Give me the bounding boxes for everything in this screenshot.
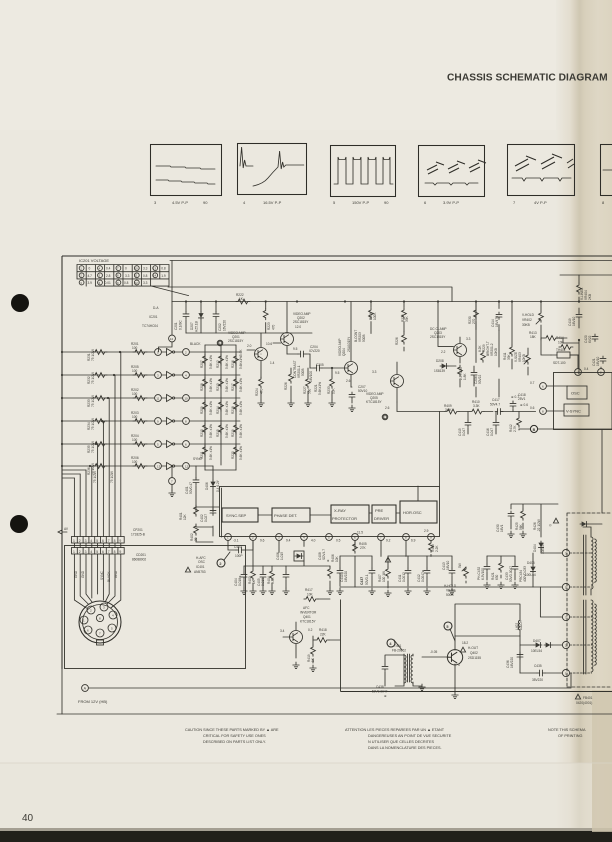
svg-text:86088002: 86088002 [132, 558, 146, 562]
wire AV arrow [58, 527, 69, 534]
resistor R228b [395, 331, 406, 351]
svg-text:10K: 10K [332, 387, 336, 394]
svg-text:FB401: FB401 [583, 696, 593, 700]
svg-text:0.027: 0.027 [204, 514, 208, 522]
svg-text:4.0: 4.0 [311, 539, 316, 543]
svg-text:27K: 27K [360, 546, 367, 550]
svg-text:VR401: VR401 [446, 589, 456, 593]
inverter U201C row [61, 388, 240, 407]
capacitor C411 [398, 556, 411, 595]
svg-text:6V22: 6V22 [588, 335, 592, 343]
svg-text:OSC: OSC [198, 560, 206, 564]
svg-text:3.3: 3.3 [466, 337, 471, 341]
resistor R406 [327, 554, 339, 594]
pin 5 of T402 [562, 583, 591, 590]
resistor R225 [401, 302, 409, 332]
svg-text:-0.05: -0.05 [430, 650, 437, 654]
transistor Q401 AFC invertor [280, 606, 317, 669]
caution text block [185, 728, 279, 744]
resistor R230 [468, 302, 478, 330]
svg-text:R227: R227 [303, 386, 307, 394]
svg-text:5: 5 [446, 625, 448, 629]
wire vhold top link [560, 274, 612, 276]
svg-text:GND: GND [74, 570, 78, 578]
svg-text:3.3: 3.3 [143, 281, 148, 285]
svg-text:5: 5 [96, 550, 98, 554]
resistor ladder R212-R215 column [216, 345, 229, 465]
svg-text:4V P-P: 4V P-P [534, 200, 547, 205]
svg-text:KTC1815Y: KTC1815Y [366, 400, 382, 404]
svg-text:5W: 5W [458, 563, 462, 568]
pin 1 of IC401 [225, 534, 239, 543]
svg-text:⊕: ⊕ [326, 559, 330, 562]
wire hout collector [455, 635, 520, 637]
svg-text:2: 2 [79, 550, 81, 554]
svg-text:R414: R414 [556, 336, 564, 340]
box OSC [567, 386, 587, 399]
resistor R402 [190, 524, 213, 542]
svg-text:2.6: 2.6 [346, 379, 351, 383]
svg-text:DESCRIBED ON PARTS LIST ONLY.: DESCRIBED ON PARTS LIST ONLY. [203, 740, 266, 744]
svg-text:1.8K: 1.8K [463, 373, 467, 380]
svg-text:5.6K ±1%: 5.6K ±1% [209, 355, 213, 369]
wire right column risers [476, 302, 499, 398]
svg-text:2.9: 2.9 [424, 529, 429, 533]
waveform box 6 [419, 146, 487, 206]
svg-text:11.5: 11.5 [357, 531, 363, 535]
svg-text:75 1/2W: 75 1/2W [93, 471, 97, 483]
svg-text:CHASSIS SCHEMATIC DIAGRAM: CHASSIS SCHEMATIC DIAGRAM [447, 73, 608, 84]
svg-text:100 1W: 100 1W [382, 571, 386, 582]
resistor R426 [533, 518, 559, 532]
svg-text:OSC: OSC [571, 391, 580, 396]
svg-text:HOR.OSC: HOR.OSC [403, 510, 422, 515]
svg-text:5.6K±1%5.6K: 5.6K±1%5.6K [239, 349, 243, 369]
svg-text:2SD1155: 2SD1155 [468, 656, 481, 660]
wire row links [74, 543, 120, 548]
svg-text:25V1: 25V1 [518, 397, 526, 401]
svg-text:R417: R417 [305, 588, 313, 592]
svg-text:9.2: 9.2 [386, 539, 391, 543]
svg-text:0.4: 0.4 [584, 367, 589, 371]
svg-text:6: 6 [102, 550, 104, 554]
svg-text:SDT-100: SDT-100 [553, 361, 566, 365]
svg-text:0: 0 [89, 267, 91, 271]
wire upper link [168, 287, 452, 302]
svg-text:13: 13 [157, 464, 161, 468]
svg-text:PRE: PRE [375, 508, 384, 513]
resistor R419 [307, 640, 316, 672]
capacitor C410 [337, 556, 348, 595]
svg-text:D208: D208 [436, 359, 444, 363]
wire ladder join [205, 345, 236, 470]
svg-text:⊕: ⊕ [384, 694, 387, 698]
svg-text:16V1: 16V1 [500, 524, 504, 532]
resistor R228 [458, 365, 467, 387]
pin 14 of IC201 [159, 302, 176, 353]
capacitor C417 [490, 395, 519, 415]
resistor R408 [429, 540, 439, 556]
box PHASE DET [272, 508, 310, 522]
svg-text:50VD.0047: 50VD.0047 [509, 566, 513, 582]
svg-text:5.6K ±1%: 5.6K ±1% [209, 401, 213, 415]
svg-text:AN5753: AN5753 [194, 570, 206, 574]
svg-text:2.0: 2.0 [247, 344, 252, 348]
box X-RAY PROTECTOR [331, 505, 369, 523]
svg-text:75 1/2W: 75 1/2W [110, 471, 114, 483]
svg-text:2.7K: 2.7K [513, 425, 517, 432]
svg-text:C437: C437 [360, 577, 364, 585]
svg-text:3.3: 3.3 [372, 370, 377, 374]
svg-text:12: 12 [135, 281, 139, 285]
svg-text:0.047: 0.047 [490, 428, 494, 436]
wire afc input [196, 466, 219, 536]
svg-text:0.01: 0.01 [105, 281, 111, 285]
subtle lower page shade [0, 763, 612, 829]
wire table leader [152, 286, 189, 296]
svg-text:33K: 33K [405, 315, 409, 322]
bottom right darker corner [592, 690, 612, 832]
svg-text:5.6K ±1%: 5.6K ±1% [225, 378, 229, 392]
svg-text:CP201: CP201 [133, 528, 143, 532]
svg-text:⊕ 0.6: ⊕ 0.6 [520, 403, 528, 407]
svg-text:5.6K ±1%: 5.6K ±1% [225, 401, 229, 415]
diode D408 internal [580, 521, 602, 526]
capacitor C430 [496, 511, 514, 538]
faint fold line [0, 762, 612, 764]
transistor Q201 video amp [217, 331, 267, 378]
svg-text:7: 7 [108, 550, 110, 554]
svg-text:T401: T401 [394, 644, 401, 648]
wire second top border line [170, 260, 612, 262]
capacitor C416 [486, 412, 499, 437]
svg-text:560: 560 [308, 388, 312, 394]
svg-text:0.8: 0.8 [161, 267, 166, 271]
svg-text:R233: R233 [327, 386, 331, 394]
svg-text:H-HOLD: H-HOLD [444, 584, 457, 588]
wire main top bus [172, 301, 612, 303]
pin 3 of IC401 [276, 534, 291, 543]
svg-text:4: 4 [90, 539, 92, 543]
svg-text:4.7: 4.7 [88, 274, 93, 278]
svg-text:0.1/BC: 0.1/BC [179, 320, 183, 330]
svg-text:6.9: 6.9 [411, 539, 416, 543]
diode D208 [434, 359, 456, 373]
box HOR.OSC [400, 501, 437, 523]
svg-text:2: 2 [219, 562, 221, 566]
svg-text:2: 2 [79, 539, 81, 543]
inverter U201D row [61, 411, 240, 430]
wire top border line [62, 255, 612, 257]
box SYNC.SEP [222, 508, 258, 522]
wire vhold row [541, 338, 579, 374]
inductor L402 [515, 614, 523, 636]
svg-text:C201: C201 [174, 322, 178, 330]
resistor R418 [313, 628, 340, 642]
svg-text:50V4.7: 50V4.7 [490, 403, 500, 407]
svg-text:DANGEREUSES AN POINT DE VUE SE: DANGEREUSES AN POINT DE VUE SECURITE [368, 734, 452, 738]
box vertical oscillator module [530, 355, 612, 430]
capacitor C405 [257, 566, 266, 595]
resistor R243 [93, 471, 97, 483]
capacitor C419 [568, 308, 582, 341]
svg-text:FROM 12V (HB): FROM 12V (HB) [78, 699, 108, 704]
label FB401 [575, 694, 592, 705]
svg-text:11: 11 [135, 274, 138, 278]
wire block links [258, 486, 418, 515]
svg-text:7: 7 [108, 539, 110, 543]
svg-text:75 1/2W: 75 1/2W [91, 441, 95, 453]
svg-text:500B: 500B [362, 335, 366, 342]
svg-text:500B: 500B [446, 593, 453, 597]
svg-text:3.3: 3.3 [125, 274, 130, 278]
thermistor TH401 [551, 348, 578, 365]
wire secondary bus [186, 332, 312, 334]
svg-text:0.0047⊕: 0.0047⊕ [421, 569, 425, 582]
svg-text:56K: 56K [519, 523, 523, 530]
svg-text:D-A: D-A [153, 306, 159, 310]
svg-text:OF PRINTING: OF PRINTING [558, 734, 583, 738]
svg-text:FB-20862: FB-20862 [392, 649, 406, 653]
wire pin3 row [541, 552, 562, 554]
svg-text:75 1/2W: 75 1/2W [91, 418, 95, 430]
CP201 connector label [131, 528, 145, 537]
right page edge tan band with crease gradient [556, 0, 612, 842]
svg-text:100L54: 100L54 [525, 573, 536, 577]
pin 2 of IC401 [250, 534, 265, 543]
svg-text:3.9: 3.9 [88, 281, 93, 285]
potentiometer VR403 V-SIZE [514, 348, 530, 375]
resistor R222 [236, 293, 250, 304]
svg-text:16V10: 16V10 [596, 357, 600, 366]
wire 12V feed top right [511, 504, 558, 537]
svg-text:50VD.1: 50VD.1 [365, 574, 369, 585]
svg-text:H-OUT: H-OUT [468, 646, 478, 650]
svg-text:CD201: CD201 [136, 553, 146, 557]
svg-text:10: 10 [184, 396, 188, 400]
svg-text:6: 6 [102, 539, 104, 543]
capacitor C435 [520, 664, 562, 682]
svg-text:IC201 VOLTAGE: IC201 VOLTAGE [79, 258, 109, 263]
pin 2 of T402 [562, 641, 591, 648]
transformer T401 FB-20862 [392, 644, 422, 686]
svg-text:1: 1 [73, 539, 75, 543]
svg-text:Q402: Q402 [470, 651, 478, 655]
diode D405 [525, 561, 536, 577]
svg-text:16V220: 16V220 [223, 320, 227, 331]
resistor R409 [444, 404, 459, 414]
capacitor C402 [200, 508, 216, 522]
diode D407 [520, 639, 562, 653]
svg-text:5.6K ±1%: 5.6K ±1% [239, 401, 243, 415]
waveform box 8 (cut at page edge) [601, 145, 612, 206]
capacitor C406 [276, 552, 289, 595]
wire riser to hor osc [439, 412, 441, 487]
svg-text:0.8: 0.8 [143, 274, 148, 278]
svg-text:270: 270 [472, 318, 476, 324]
pin 6 of IC401 [352, 531, 364, 541]
svg-text:50V22: 50V22 [478, 375, 482, 384]
node B [519, 425, 612, 432]
capacitor C437 [360, 556, 375, 595]
capacitor C412 [417, 556, 430, 595]
svg-text:IC401: IC401 [196, 565, 205, 569]
svg-text:ATTENTION LES PIECES REPAREE: ATTENTION LES PIECES REPAREES PAR UN ▲ E… [345, 728, 445, 732]
pin 7 of T402 [562, 613, 591, 620]
svg-text:V-SYNC: V-SYNC [566, 409, 581, 414]
resistor R223 [263, 302, 275, 334]
svg-text:5.6K ±1%: 5.6K ±1% [209, 424, 213, 438]
svg-text:AFC: AFC [303, 606, 310, 610]
resistor R229 [478, 344, 486, 362]
svg-text:5.6K ±1%: 5.6K ±1% [209, 446, 213, 460]
svg-text:Q204: Q204 [342, 348, 346, 356]
capacitor C408 [318, 549, 330, 562]
svg-text:INVERTOR: INVERTOR [300, 611, 317, 615]
svg-text:0.5: 0.5 [336, 539, 341, 543]
binder hole bottom [10, 515, 28, 533]
resistor R407 [378, 556, 391, 597]
capacitor C421 [584, 356, 606, 371]
svg-text:9.6: 9.6 [260, 539, 265, 543]
connector CP201 pin row [72, 537, 125, 544]
resistor R404 [267, 566, 275, 595]
capacitor C418 [510, 393, 528, 412]
svg-text:14: 14 [170, 337, 174, 341]
capacitor C433 [505, 556, 518, 589]
wire cable to DIN [74, 554, 120, 608]
capacitor C415 [458, 412, 471, 437]
wire left border [61, 256, 63, 669]
svg-text:10.6: 10.6 [266, 342, 272, 346]
svg-text:CRITICAL FOR SAFETY USE ONES: CRITICAL FOR SAFETY USE ONES [203, 734, 266, 738]
wire sync row drop from pin4 [189, 465, 213, 467]
svg-text:3.4: 3.4 [280, 629, 285, 633]
box V-SYNC [564, 404, 589, 416]
wire harness drops [74, 352, 120, 537]
svg-text:100K: 100K [373, 312, 377, 320]
svg-text:NOTE THIS SCHEMA: NOTE THIS SCHEMA [548, 728, 586, 732]
svg-text:10K: 10K [558, 341, 565, 345]
svg-text:D405: D405 [527, 561, 535, 565]
node pin7 of IC201 [169, 465, 176, 497]
svg-text:13: 13 [153, 266, 157, 270]
resistor R410 [470, 400, 484, 414]
capacitor C202 [213, 302, 227, 334]
svg-text:5.6K ±1%: 5.6K ±1% [239, 378, 243, 392]
box horizontal stage enclosure [341, 600, 612, 692]
svg-text:TC74HC04: TC74HC04 [142, 324, 158, 328]
wire pin5 row [487, 553, 533, 587]
svg-text:9: 9 [119, 550, 121, 554]
svg-text:10EL54: 10EL54 [531, 649, 542, 653]
node 4 tp [387, 639, 402, 650]
svg-text:16V10: 16V10 [446, 561, 450, 570]
resistor ladder R216-R220 column [231, 345, 243, 470]
svg-text:0.2: 0.2 [308, 628, 313, 632]
svg-text:X-RAY: X-RAY [334, 508, 346, 513]
box CD201 86088002 [65, 546, 246, 669]
svg-text:8: 8 [114, 550, 116, 554]
diode D207 [190, 302, 204, 334]
svg-text:8: 8 [114, 539, 116, 543]
svg-text:470: 470 [260, 388, 264, 394]
svg-text:11: 11 [156, 396, 159, 400]
svg-text:9.5: 9.5 [293, 347, 298, 351]
resistor R244 [110, 471, 114, 483]
svg-text:50V0.47: 50V0.47 [189, 482, 193, 494]
svg-text:2SA1015Y: 2SA1015Y [347, 336, 351, 352]
svg-text:3: 3 [85, 539, 87, 543]
capacitor C414 [491, 302, 502, 331]
svg-text:IC201: IC201 [149, 315, 158, 319]
pin 1 of T402 [562, 669, 591, 676]
resistor R412 [509, 412, 521, 433]
svg-text:2SC1815Y: 2SC1815Y [293, 320, 309, 324]
svg-text:0.047: 0.047 [462, 428, 466, 436]
svg-text:R223: R223 [267, 322, 271, 330]
capacitor C206 [471, 366, 482, 386]
pin 7 of IC401 [378, 534, 391, 543]
wire bus riser [171, 261, 173, 302]
wire harness bends [62, 470, 86, 478]
pin 8 of IC401 [403, 534, 416, 543]
svg-text:9.4: 9.4 [286, 539, 291, 543]
svg-text:ICV220: ICV220 [309, 349, 320, 353]
transformer T402 flyback dashed box [567, 513, 612, 687]
svg-text:2.6: 2.6 [385, 406, 390, 410]
svg-text:75 1/2W: 75 1/2W [91, 349, 95, 361]
resistor ladder R207-R211 column [190, 342, 207, 470]
svg-text:630: 630 [495, 574, 499, 580]
svg-text:30KB: 30KB [522, 323, 530, 327]
potentiometer VR402 V-HOLD [522, 302, 543, 341]
capacitor C204 [287, 345, 320, 357]
resistor R421 [491, 556, 504, 589]
svg-text:DANS LA NOMENCLATURE DES PIECE: DANS LA NOMENCLATURE DES PIECES. [368, 746, 442, 750]
resistor R411 [503, 302, 514, 370]
svg-text:DRIVER: DRIVER [374, 516, 389, 521]
capacitor C403 [228, 540, 253, 558]
svg-text:40: 40 [22, 813, 34, 824]
potentiometer VR201-1 contrast [293, 360, 305, 378]
svg-text:171825-B: 171825-B [131, 533, 145, 537]
resistor R226 [284, 368, 294, 407]
svg-text:V-HOLD: V-HOLD [522, 313, 535, 317]
svg-text:VR402: VR402 [522, 318, 532, 322]
resistor R227 [303, 368, 312, 407]
svg-text:3.3K: 3.3K [473, 404, 480, 408]
transformer T402 secondary winding [591, 600, 596, 672]
svg-text:6.3V100: 6.3V100 [481, 568, 485, 580]
inverter U201B row [61, 365, 240, 384]
svg-text:SYNC.SEP: SYNC.SEP [226, 513, 247, 518]
capacitor C434 [519, 566, 527, 582]
wire lower links [455, 604, 520, 673]
svg-text:4: 4 [90, 550, 92, 554]
svg-text:100: 100 [132, 369, 138, 373]
svg-text:18.2: 18.2 [462, 641, 468, 645]
pin 9 of IC401 [424, 529, 434, 540]
svg-text:.22 1/2W: .22 1/2W [537, 519, 541, 532]
potentiometer VR201-2 bright [486, 341, 498, 356]
capacitor C201 [174, 302, 189, 334]
potentiometer VR401 H-HOLD [444, 584, 457, 597]
binder hole top [11, 294, 29, 312]
svg-text:5.6K ±1%: 5.6K ±1% [239, 446, 243, 460]
svg-text:16V10: 16V10 [572, 317, 576, 326]
wire mid node [261, 354, 310, 368]
